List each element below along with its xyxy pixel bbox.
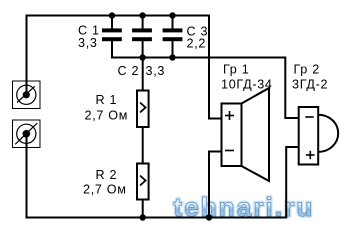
svg-text:3,3: 3,3 bbox=[78, 36, 98, 50]
junction dot top bus at C1 bbox=[109, 12, 115, 18]
tweeter Гр2 dome bbox=[318, 115, 338, 152]
svg-text:2,2: 2,2 bbox=[187, 37, 207, 51]
svg-text:C 2: C 2 bbox=[118, 64, 140, 78]
wire top bus from input to right vertical bbox=[27, 15, 211, 17]
wire left vertical from top bus down to terminal XS1 bbox=[26, 15, 28, 96]
capacitor C2 bbox=[132, 16, 152, 59]
junction dot bottom bus at C3 bbox=[169, 54, 175, 60]
svg-text:Гр 2: Гр 2 bbox=[294, 62, 320, 76]
junction dot top bus at C3 bbox=[169, 12, 175, 18]
tweeter Гр2 body bbox=[299, 107, 319, 165]
svg-text:R 2: R 2 bbox=[96, 168, 118, 182]
wire left vertical from terminal XS2 down to bottom rail bbox=[26, 134, 28, 219]
wire capacitor bottom bus bbox=[112, 57, 286, 59]
wire from bottom bus down to Гр2 minus bbox=[285, 58, 298, 119]
capacitor C1 bbox=[102, 16, 122, 59]
wire from bottom bus at C2 down to R1 bbox=[142, 58, 144, 92]
capacitor C3 bbox=[163, 16, 183, 59]
wire right vertical from top bus down to Гр1 plus bbox=[209, 16, 222, 119]
resistor R2 bbox=[137, 164, 149, 200]
wire Гр2 plus to bottom rail bbox=[286, 147, 298, 218]
wire Гр1 minus to bottom rail bbox=[209, 152, 222, 218]
svg-text:3ГД-2: 3ГД-2 bbox=[292, 78, 328, 92]
svg-text:2,7 Ом: 2,7 Ом bbox=[85, 109, 129, 123]
junction dot top bus at C2 bbox=[139, 12, 145, 18]
svg-text:3,3: 3,3 bbox=[146, 64, 166, 78]
junction dot bottom rail at R2 bbox=[140, 214, 146, 220]
terminal XS1 (top input clamp) bbox=[13, 81, 41, 109]
wire from R2 down to bottom rail bbox=[142, 199, 144, 218]
loudspeaker Гр1 cone bbox=[242, 88, 270, 181]
resistor R1 bbox=[137, 91, 149, 128]
loudspeaker Гр1 body bbox=[222, 104, 242, 167]
svg-text:Гр 1: Гр 1 bbox=[223, 62, 249, 76]
watermark tehnari.ru bbox=[174, 192, 315, 222]
junction dot bottom rail at Гр1 bbox=[206, 214, 212, 220]
terminal XS2 (bottom input clamp) bbox=[13, 120, 41, 148]
wire between R1 and R2 bbox=[142, 127, 144, 164]
wire bottom rail bbox=[27, 217, 288, 219]
junction dot bottom bus at C2 bbox=[139, 54, 145, 60]
svg-text:R 1: R 1 bbox=[96, 93, 118, 107]
svg-text:2,7 Ом: 2,7 Ом bbox=[83, 183, 127, 197]
